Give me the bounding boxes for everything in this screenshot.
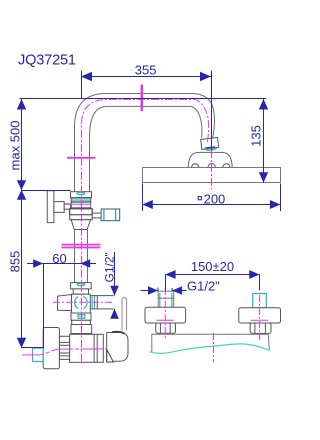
band below collar	[72, 320, 91, 324]
arrowhead 855 bottom	[17, 338, 26, 348]
shower head dome	[188, 152, 232, 167]
riser pipe mid section	[74, 230, 76, 283]
arrowhead 60 left	[33, 259, 43, 267]
diverter top collar	[71, 283, 92, 289]
dome scallop right	[223, 164, 230, 167]
centerline spout vertical	[211, 150, 213, 189]
svg-text:355: 355	[135, 63, 157, 78]
bracket stub	[54, 202, 64, 213]
extension line spout centerline horizontal	[20, 98, 267, 100]
svg-text:135: 135	[248, 125, 263, 147]
section tick top pipe	[141, 85, 144, 112]
centerline right union	[259, 295, 261, 340]
extension line 200 left	[142, 184, 144, 212]
bottom view left flange	[145, 307, 186, 323]
dome scallop left	[192, 164, 199, 168]
upper valve cyan band	[71, 198, 91, 203]
wire dim max500 vertical line	[17, 99, 71, 348]
bottom view right stub	[253, 294, 266, 308]
diverter bottom collar	[71, 313, 91, 320]
diverter knob	[58, 295, 72, 311]
arrowhead butterfly at y190	[17, 180, 26, 190]
arrowhead max500 top	[17, 99, 26, 110]
svg-text:G1/2": G1/2"	[103, 252, 117, 282]
bottom view left nut	[156, 323, 176, 333]
bottom view right nut	[250, 323, 271, 333]
lever bar	[122, 297, 127, 330]
arrowhead 150 right	[249, 270, 259, 279]
wall bracket upper	[47, 191, 54, 223]
extension line 200 right	[280, 184, 282, 212]
wire dim-135 line	[259, 99, 268, 183]
arrowhead bottom-G12 left	[148, 286, 158, 294]
svg-text:150±20: 150±20	[191, 259, 234, 274]
svg-text:G1/2": G1/2"	[187, 279, 220, 294]
svg-text:max 500: max 500	[8, 121, 23, 171]
extension line right of 355	[211, 71, 213, 151]
tick right union	[251, 319, 269, 321]
tick at valve	[64, 203, 91, 205]
wire dim-355 line	[81, 71, 212, 151]
wall plate of shower head	[143, 168, 281, 183]
centerline riser magenta	[22, 85, 268, 365]
dome scallop middle	[208, 164, 215, 168]
centerline body horizontal	[22, 349, 107, 355]
arrowhead 200 left	[142, 200, 153, 209]
wall pipe teal box	[33, 348, 44, 362]
spout gooseneck outer edge	[75, 94, 215, 192]
bottom view right flange	[239, 308, 281, 323]
diverter ball cyan	[75, 297, 87, 309]
diverter cross body	[71, 294, 90, 313]
upper right port stub	[92, 212, 102, 214]
upper valve nut	[71, 192, 92, 198]
water wavy line	[150, 344, 270, 354]
center mark between unions	[213, 333, 215, 363]
extension line y348	[22, 347, 44, 349]
hex nut left of body	[59, 336, 69, 359]
label square-200	[198, 197, 201, 200]
extension line left of 355	[81, 71, 83, 100]
arrowhead bottom-G12 right	[172, 286, 182, 294]
spout gooseneck inner edge	[90, 106, 202, 191]
wire dim-60 line	[27, 259, 96, 348]
wire dim G1/2 bottom view	[141, 286, 187, 294]
centerline left union	[164, 288, 166, 340]
side port G1/2	[90, 295, 114, 297]
extension stubs	[157, 288, 159, 292]
break band	[62, 244, 101, 246]
upper valve band	[71, 202, 91, 208]
arrowhead 60 right	[80, 259, 90, 267]
section tick riser	[67, 157, 96, 159]
centerline cross horizontal	[53, 301, 114, 303]
wire dim-200 line	[142, 184, 280, 212]
upper valve body	[70, 209, 93, 215]
wire dim 150±20	[165, 270, 259, 290]
arrowhead 135 top	[259, 99, 268, 110]
extension line 150 left	[165, 275, 167, 291]
svg-text:200: 200	[204, 191, 226, 206]
handle wedge	[107, 350, 114, 363]
wall section line	[152, 334, 269, 352]
aerator collar	[201, 137, 219, 149]
handle	[107, 333, 128, 362]
svg-text:JQ37251: JQ37251	[18, 53, 76, 69]
extension line 60 left	[43, 264, 45, 349]
arrowhead 200 right	[270, 200, 281, 209]
mixer body	[70, 334, 104, 362]
arrowhead G12 up	[110, 309, 119, 319]
arrowhead 150 left	[165, 270, 175, 279]
valve taper	[71, 220, 91, 230]
aerator cyan face	[204, 148, 217, 151]
arrowhead G12 down	[110, 286, 119, 296]
arrowhead 135 bottom	[259, 172, 268, 182]
diverter neck	[73, 289, 88, 294]
wire dim G1/2 side-port	[110, 252, 119, 319]
extension line y190	[22, 190, 71, 192]
extension line 150 right	[259, 275, 261, 291]
wall flange	[43, 328, 59, 369]
tick left union	[157, 319, 175, 321]
upper right port box	[101, 209, 120, 221]
bottom view left stub	[158, 290, 174, 292]
arrowheads dim-355	[81, 72, 92, 81]
svg-text:855: 855	[7, 251, 22, 273]
svg-text:60: 60	[52, 251, 66, 266]
